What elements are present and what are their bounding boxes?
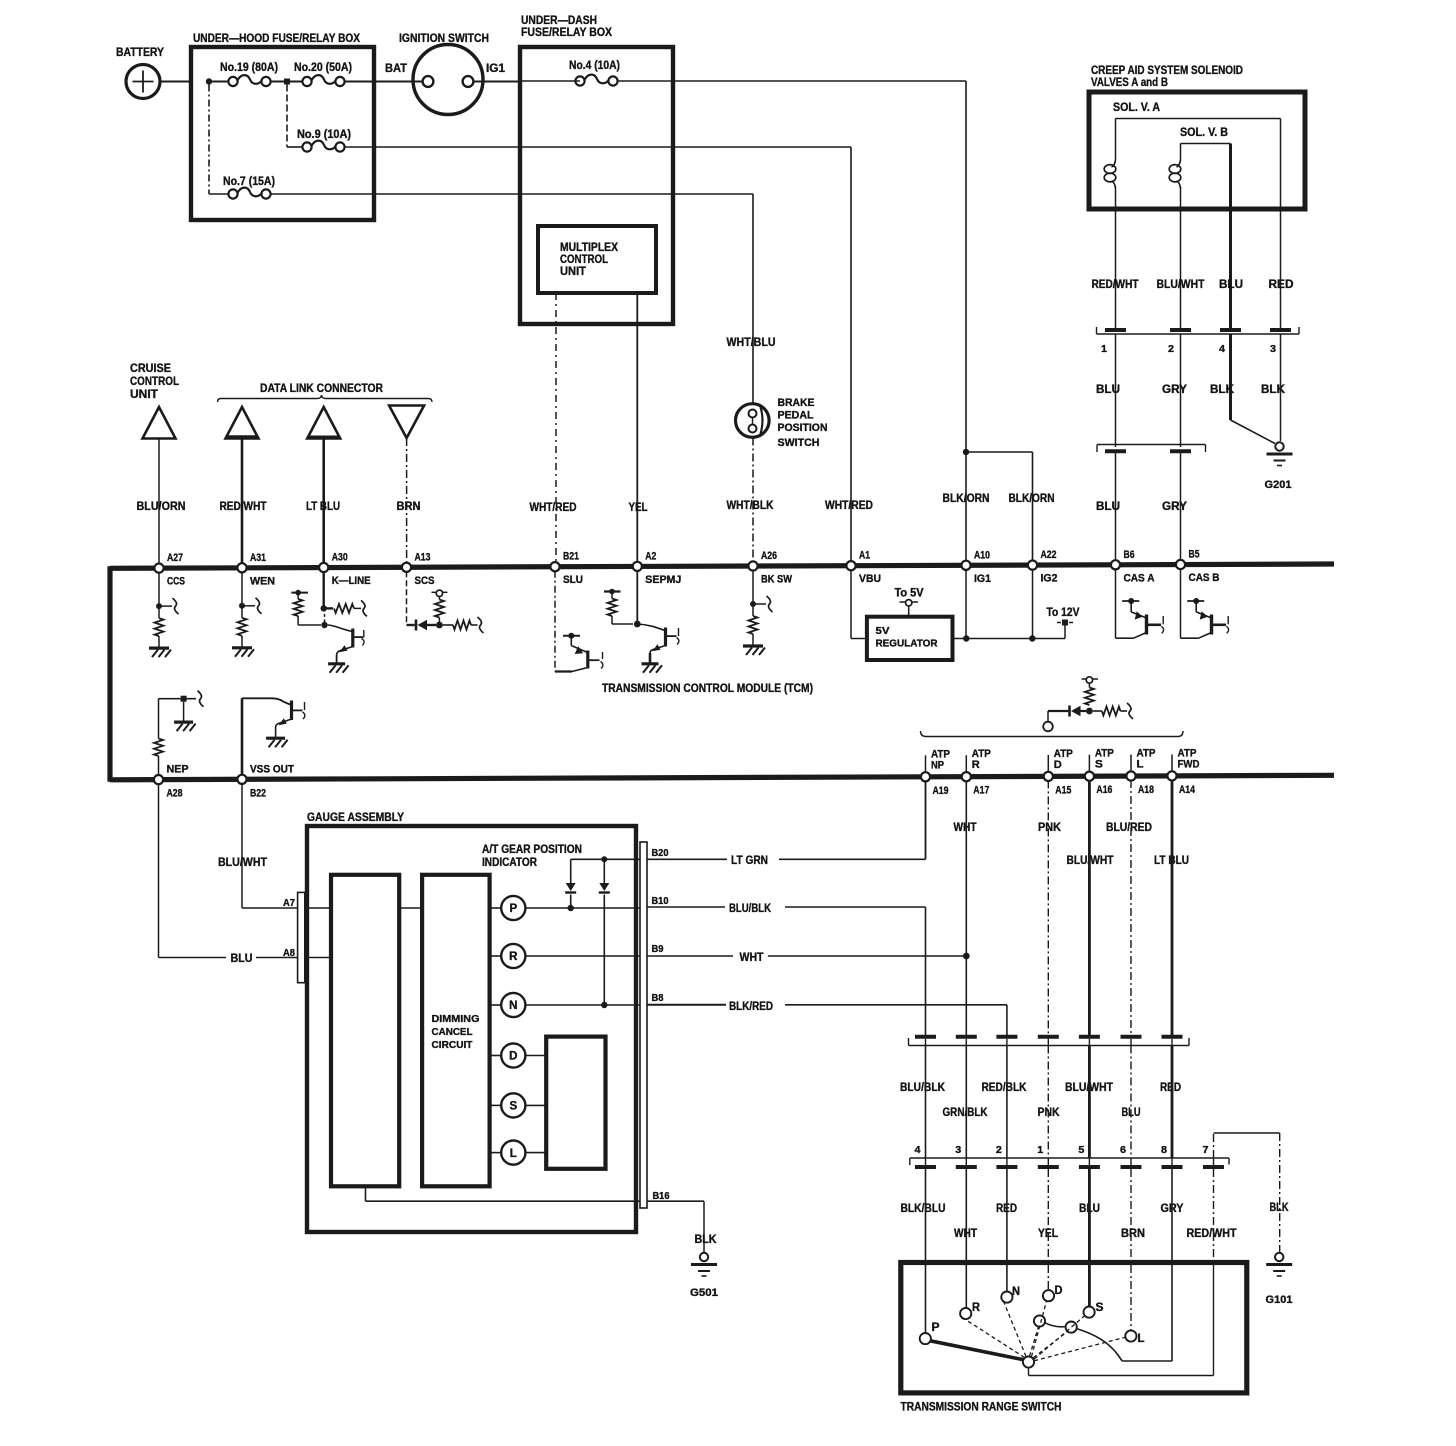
node B22 (VSS OUT) xyxy=(237,775,246,784)
TCM bottom bus xyxy=(110,775,1334,780)
fuse No.20 (50A) xyxy=(302,77,311,86)
node A26 (BK SW) xyxy=(748,561,757,570)
svg-text:No.20 (50A): No.20 (50A) xyxy=(294,62,352,74)
row2 pin 5 bar xyxy=(1079,1165,1100,1169)
svg-text:5V: 5V xyxy=(876,625,890,637)
svg-text:BLU: BLU xyxy=(1096,384,1120,396)
ignition switch BAT contact xyxy=(423,76,434,87)
node A22 (IG2) xyxy=(1028,561,1037,570)
svg-text:BK SW: BK SW xyxy=(761,574,793,586)
row1 pin bar 3 xyxy=(996,1035,1017,1039)
svg-text:BLK/ORN: BLK/ORN xyxy=(1009,493,1055,505)
junction N diode xyxy=(601,1002,607,1008)
wire RED/WHT from coil A xyxy=(1115,187,1117,330)
svg-text:UNIT: UNIT xyxy=(560,266,586,278)
wire stub A18 to connector brace xyxy=(1130,755,1132,773)
node A15 (ATP D) xyxy=(1044,772,1053,781)
svg-text:B6: B6 xyxy=(1124,549,1135,561)
svg-text:RED/BLK: RED/BLK xyxy=(982,1082,1028,1094)
node A17 (ATP R) xyxy=(962,772,971,781)
WEN pull-down circuit xyxy=(241,572,243,618)
svg-text:A8: A8 xyxy=(283,947,295,959)
svg-text:UNDER—HOOD FUSE/RELAY BOX: UNDER—HOOD FUSE/RELAY BOX xyxy=(193,31,360,45)
transmission range switch box xyxy=(901,1263,1247,1393)
To 12V terminal xyxy=(1064,623,1066,639)
svg-text:BLU: BLU xyxy=(231,953,253,965)
range switch contact R xyxy=(960,1308,971,1319)
wire col1 to D xyxy=(1047,1169,1049,1290)
gauge assembly box xyxy=(307,826,636,1232)
K-LINE junction 1 xyxy=(321,605,327,611)
wire stub A14 to connector brace xyxy=(1171,754,1173,772)
svg-text:CONTROL: CONTROL xyxy=(130,376,179,388)
svg-text:B16: B16 xyxy=(653,1191,670,1202)
wire block1 to block2 xyxy=(399,907,422,909)
wire resistor to 5V terminal xyxy=(1088,684,1090,688)
svg-text:S: S xyxy=(1096,1302,1104,1314)
wire stub A16 to connector brace xyxy=(1088,755,1090,773)
wire fuse No.4 output (IG1 feed) xyxy=(618,80,967,82)
svg-text:RED/WHT: RED/WHT xyxy=(1187,1228,1237,1240)
junction on BAT feed xyxy=(206,78,212,84)
junction IG1/IG2 feeds xyxy=(963,449,969,455)
DLC triangle 2 xyxy=(307,407,340,439)
range switch contact P xyxy=(920,1333,931,1344)
row2 pin 1 stub xyxy=(1047,1158,1049,1165)
wire A17 down xyxy=(965,781,967,1035)
wire R to B9 xyxy=(525,955,640,957)
wire pin8 col xyxy=(1171,1046,1174,1159)
svg-text:A13: A13 xyxy=(415,551,431,563)
range switch contact L xyxy=(1125,1330,1136,1341)
row1 pin stub 5 xyxy=(1088,1039,1090,1046)
svg-text:A17: A17 xyxy=(973,785,989,797)
svg-text:GRY: GRY xyxy=(1162,384,1187,396)
row1 pin stub 6 xyxy=(1130,1039,1132,1046)
ATP line hook xyxy=(1127,703,1133,719)
svg-text:PEDAL: PEDAL xyxy=(778,410,814,422)
wire cruise to A27 xyxy=(158,439,160,565)
svg-text:BLU/RED: BLU/RED xyxy=(1106,822,1152,834)
svg-text:UNIT: UNIT xyxy=(130,389,158,401)
junction ATP pullup xyxy=(1086,708,1093,715)
wire A18 down xyxy=(1130,780,1132,1035)
range switch mid contact 2 xyxy=(1066,1322,1077,1333)
dimming cancel circuit box xyxy=(422,875,490,1187)
indicator lamp S xyxy=(490,1104,502,1106)
row1 pin stub 4 xyxy=(1047,1039,1049,1046)
svg-text:B22: B22 xyxy=(250,787,266,799)
svg-text:PNK: PNK xyxy=(1038,822,1062,834)
svg-text:A18: A18 xyxy=(1138,784,1154,796)
wiper ghost to S xyxy=(1034,1316,1084,1359)
wire VBU feed down to A1 xyxy=(850,147,852,562)
wire BLK right to ground joint xyxy=(1280,334,1282,441)
svg-text:To 5V: To 5V xyxy=(895,588,924,600)
solenoid connector pin 3 bar xyxy=(1270,328,1291,332)
solenoid A top wire xyxy=(1115,119,1117,161)
svg-text:WHT/BLU: WHT/BLU xyxy=(727,337,776,349)
battery symbol xyxy=(126,65,160,99)
wire IG1 feed down to A10 xyxy=(965,81,967,561)
VSS OUT wire up xyxy=(241,698,244,775)
svg-text:WEN: WEN xyxy=(250,575,275,587)
K-LINE pull resistor xyxy=(297,593,299,599)
B connector strip xyxy=(640,842,647,1208)
svg-text:2: 2 xyxy=(996,1144,1002,1156)
wiper ghost to mid1 xyxy=(1030,1327,1039,1357)
K-LINE wire down xyxy=(323,572,325,609)
G201 ground symbol xyxy=(1275,442,1283,450)
diode to N line xyxy=(603,859,605,883)
svg-text:VSS OUT: VSS OUT xyxy=(250,763,294,775)
row1 pin bar 6 xyxy=(1121,1035,1142,1039)
wire into fuse No.7 xyxy=(209,193,229,195)
svg-text:A2: A2 xyxy=(645,550,656,562)
range switch mid contact 1 xyxy=(1034,1315,1045,1326)
wiper ghost to D xyxy=(1032,1301,1047,1356)
indicator lamp N xyxy=(490,1004,502,1006)
svg-text:L: L xyxy=(1138,1333,1145,1345)
svg-text:A16: A16 xyxy=(1096,784,1112,796)
node A2 (SEPMJ) xyxy=(633,562,642,571)
svg-text:G501: G501 xyxy=(690,1287,718,1299)
node A16 (ATP S) xyxy=(1085,772,1094,781)
wire B20 (LT GRN) xyxy=(647,858,727,860)
svg-text:L: L xyxy=(510,1148,517,1160)
wire into fuse No.9 xyxy=(287,146,303,148)
wire N to B8 xyxy=(525,1004,640,1006)
wire S to sub-box xyxy=(525,1104,546,1106)
SEPMJ pull resistor stub xyxy=(604,590,621,592)
row2 pin 7 stub xyxy=(1213,1158,1215,1165)
wire to hook xyxy=(1120,710,1127,712)
wire regulator output xyxy=(953,638,1066,640)
svg-text:SOL. V. B: SOL. V. B xyxy=(1180,127,1228,139)
row2 pin 4 bar xyxy=(915,1165,936,1169)
svg-text:D: D xyxy=(1054,759,1062,771)
svg-text:CRUISE: CRUISE xyxy=(130,363,171,375)
svg-text:VBU: VBU xyxy=(859,573,881,585)
wire B16 (BLK) to G501 xyxy=(647,1200,704,1202)
wire box edge to fuse No.4 xyxy=(520,80,580,82)
svg-text:B20: B20 xyxy=(652,848,669,859)
svg-text:TRANSMISSION RANGE SWITCH: TRANSMISSION RANGE SWITCH xyxy=(901,1400,1062,1414)
svg-text:A30: A30 xyxy=(332,552,348,564)
row2 pin 8 bar xyxy=(1162,1165,1183,1169)
DLC triangle 1 xyxy=(226,407,259,439)
wiper ghost to R xyxy=(962,1317,1025,1358)
wire DLC3 to A13 xyxy=(406,438,408,563)
svg-text:WHT/RED: WHT/RED xyxy=(530,502,577,514)
node A18 (ATP L) xyxy=(1126,771,1135,780)
wire col3 to R xyxy=(965,1169,967,1308)
wire fuse No.7 output (to brake switch) xyxy=(271,193,754,195)
wire A8 into gauge xyxy=(305,957,331,959)
wire pin1 col xyxy=(1047,1046,1049,1159)
svg-text:7: 7 xyxy=(1203,1144,1209,1156)
connector row2 bracket xyxy=(910,1157,1229,1159)
2nd connector GRY bar xyxy=(1170,449,1191,453)
svg-text:IG1: IG1 xyxy=(486,61,505,75)
node A19 (ATP NP) xyxy=(921,772,930,781)
svg-text:A27: A27 xyxy=(167,552,183,564)
row2 pin 1 bar xyxy=(1038,1165,1059,1169)
node A13 (SCS) xyxy=(402,563,411,572)
range switch wiper (P selected) xyxy=(930,1341,1023,1360)
wire battery to under-hood box xyxy=(160,81,191,83)
wire RED side of SOL.V.A xyxy=(1280,119,1282,330)
svg-text:BRN: BRN xyxy=(397,501,421,513)
wire pin2 col xyxy=(1006,1046,1008,1159)
ATP series resistor xyxy=(1093,710,1102,712)
fuse No.19 (80A) xyxy=(228,77,237,86)
solenoid connector pin 4 bar xyxy=(1220,328,1241,332)
row2 pin 2 bar xyxy=(996,1165,1017,1169)
BK SW pull-down circuit xyxy=(752,570,754,616)
wire branch down to fuse No.9 xyxy=(286,85,288,148)
svg-text:B8: B8 xyxy=(652,993,664,1004)
svg-text:CAS A: CAS A xyxy=(1124,572,1155,584)
wire B22 down (BLU/WHT) xyxy=(241,783,243,908)
svg-text:REGULATOR: REGULATOR xyxy=(876,638,938,650)
svg-text:S: S xyxy=(509,1101,517,1113)
row1 pin stub 1 xyxy=(925,1039,927,1046)
svg-text:GAUGE ASSEMBLY: GAUGE ASSEMBLY xyxy=(307,810,404,824)
SCS hook xyxy=(478,617,484,633)
svg-text:3: 3 xyxy=(955,1144,961,1156)
fuse No.9 (10A) xyxy=(302,142,311,151)
svg-text:B21: B21 xyxy=(563,551,579,563)
CAS A transistor Q xyxy=(1115,569,1117,638)
wire ATP pullup horizontal xyxy=(1048,710,1068,712)
multiplex control unit box xyxy=(538,226,656,293)
svg-text:IGNITION SWITCH: IGNITION SWITCH xyxy=(399,31,489,45)
svg-text:No.7 (15A): No.7 (15A) xyxy=(223,176,275,188)
wire pin5 col xyxy=(1088,1046,1091,1159)
K-LINE transistor Q xyxy=(328,625,353,632)
B16 internal wire xyxy=(365,1186,367,1201)
svg-text:FUSE/RELAY BOX: FUSE/RELAY BOX xyxy=(521,25,612,39)
row1 pin bar 2 xyxy=(956,1035,977,1039)
svg-text:A28: A28 xyxy=(167,788,183,800)
row1 pin bar 1 xyxy=(915,1035,936,1039)
diode to P line xyxy=(570,859,572,883)
svg-text:MULTIPLEX: MULTIPLEX xyxy=(560,242,618,254)
wire brake feed down to switch xyxy=(752,194,754,404)
svg-text:NP: NP xyxy=(931,759,944,771)
svg-text:N: N xyxy=(509,1000,517,1012)
node A1 (VBU) xyxy=(846,561,855,570)
svg-text:SEPMJ: SEPMJ xyxy=(645,574,681,586)
K-LINE wire to base junction xyxy=(324,608,326,625)
wire multiplex to A2 (SEPMJ) xyxy=(636,293,638,562)
SCS pull-up resistor xyxy=(435,600,444,618)
junction square to No.9 branch xyxy=(284,79,290,85)
NEP resistor chain xyxy=(158,756,160,776)
pivot to common xyxy=(1028,1368,1030,1376)
svg-text:BLU/BLK: BLU/BLK xyxy=(900,1082,946,1094)
SEPMJ ground xyxy=(642,662,659,665)
wire B8 (BLK/RED) xyxy=(647,1004,726,1006)
wiper ghost to L xyxy=(1034,1337,1125,1360)
wire col7 into box xyxy=(1213,1169,1215,1263)
wire A14 down xyxy=(1171,780,1174,1035)
svg-text:G201: G201 xyxy=(1265,479,1292,491)
wire GRY to B5 xyxy=(1180,453,1182,561)
wire BLK thick to ground joint xyxy=(1229,334,1232,420)
SCS wire down xyxy=(406,571,408,625)
svg-text:1: 1 xyxy=(1101,343,1107,355)
solenoid B top wire xyxy=(1180,144,1182,161)
svg-text:BATTERY: BATTERY xyxy=(116,45,164,59)
wire DLC2 to A30 xyxy=(322,439,325,564)
ignition switch IG1 contact xyxy=(463,76,474,87)
cruise control connector triangle xyxy=(143,407,176,439)
svg-text:WHT: WHT xyxy=(740,952,764,964)
TCM left edge xyxy=(107,566,112,782)
VSS OUT transistor Q xyxy=(242,698,290,704)
svg-text:BLK/RED: BLK/RED xyxy=(729,1001,773,1013)
solenoid 2nd connector bracket xyxy=(1097,444,1206,446)
svg-text:INDICATOR: INDICATOR xyxy=(482,857,538,869)
row1 pin bar 4 xyxy=(1038,1035,1059,1039)
wire pin7 to G101 xyxy=(1213,1133,1215,1158)
svg-text:RED/WHT: RED/WHT xyxy=(1092,279,1139,291)
NEP ground xyxy=(174,720,193,723)
ATP brace xyxy=(921,731,1184,737)
node B6 (CAS A) xyxy=(1111,560,1120,569)
svg-text:A22: A22 xyxy=(1041,549,1057,561)
svg-text:6: 6 xyxy=(1120,1144,1126,1156)
indicator lamp R xyxy=(490,955,502,957)
K-LINE junction 2 xyxy=(321,622,327,628)
svg-text:BAT: BAT xyxy=(385,61,408,75)
node A10 (IG1) xyxy=(961,561,970,570)
svg-text:BLK: BLK xyxy=(1270,1202,1290,1214)
svg-text:4: 4 xyxy=(1219,343,1225,355)
svg-text:S: S xyxy=(1095,759,1103,771)
row2 pin 3 bar xyxy=(956,1165,977,1169)
gauge sub-box xyxy=(546,1037,605,1169)
range switch arc xyxy=(1045,1323,1122,1361)
svg-text:CCS: CCS xyxy=(167,576,185,588)
wire A15 down xyxy=(1047,780,1049,1035)
svg-text:3: 3 xyxy=(1270,343,1276,355)
K-LINE series resistor xyxy=(324,607,333,609)
svg-text:N: N xyxy=(1012,1286,1020,1298)
2nd connector BLU bar xyxy=(1105,449,1126,453)
range switch contact S xyxy=(1084,1307,1095,1318)
VSS OUT ground xyxy=(266,737,285,740)
solenoid connector pin 2 bar xyxy=(1170,328,1191,332)
svg-text:5: 5 xyxy=(1078,1144,1084,1156)
wire BLU down to 2nd connector xyxy=(1115,334,1117,447)
svg-text:G101: G101 xyxy=(1266,1294,1293,1306)
junction WHT A17 xyxy=(963,953,970,960)
wire fuse20 to ignition BAT xyxy=(345,81,423,83)
creep aid solenoid box xyxy=(1089,92,1305,209)
wire stub A17 to connector brace xyxy=(965,755,967,773)
SEPMJ junction xyxy=(634,621,641,628)
range switch pivot contact xyxy=(1023,1356,1034,1367)
under-dash fuse/relay box xyxy=(520,47,673,324)
svg-text:No.19 (80A): No.19 (80A) xyxy=(220,62,278,74)
row2 pin 5 stub xyxy=(1088,1158,1090,1165)
wire col4 to P xyxy=(925,1169,927,1333)
fuse No.4 (10A) xyxy=(575,76,584,85)
K-LINE ground xyxy=(328,662,345,665)
svg-text:A19: A19 xyxy=(933,785,949,797)
svg-text:BLK/ORN: BLK/ORN xyxy=(943,493,990,505)
wire switch to A26 xyxy=(752,438,754,563)
row2 pin 8 stub xyxy=(1171,1158,1173,1165)
wire pin6 col xyxy=(1130,1046,1132,1159)
wire ATP sense up xyxy=(1047,711,1049,722)
wire A28 down (BLU) xyxy=(158,784,160,958)
SCS series resistor xyxy=(443,624,453,626)
svg-text:WHT/BLK: WHT/BLK xyxy=(727,500,775,512)
svg-text:FWD: FWD xyxy=(1178,758,1200,770)
node A14 (ATP FWD) xyxy=(1167,771,1176,780)
svg-text:IG1: IG1 xyxy=(974,573,991,585)
NEP top stub xyxy=(159,698,197,700)
range switch contact N xyxy=(1001,1292,1012,1303)
row1 pin bar 7 xyxy=(1162,1035,1183,1039)
wire stub A19 to connector brace xyxy=(925,755,927,773)
svg-text:D: D xyxy=(1055,1285,1063,1297)
NEP hook xyxy=(198,691,204,707)
wire B10 (BLU/BLK) xyxy=(647,906,725,908)
wire col2 to N xyxy=(1006,1169,1008,1292)
svg-text:A7: A7 xyxy=(283,897,295,909)
wire A10 down xyxy=(965,569,967,638)
svg-text:P: P xyxy=(509,903,517,915)
svg-text:R: R xyxy=(509,951,518,963)
svg-text:DIMMING: DIMMING xyxy=(432,1013,480,1025)
solenoid connector pin 1 bar xyxy=(1105,328,1126,332)
svg-text:B9: B9 xyxy=(652,944,664,955)
svg-text:BLU/BLK: BLU/BLK xyxy=(729,903,772,915)
ignition switch body xyxy=(413,45,483,115)
SCS wire diode to junction xyxy=(427,624,436,626)
ATP pullup resistor xyxy=(1085,688,1094,706)
indicator lamp D xyxy=(490,1055,502,1057)
node A28 (NEP) xyxy=(154,775,163,784)
row2 pin 4 stub xyxy=(925,1158,927,1165)
svg-text:A15: A15 xyxy=(1055,784,1071,796)
svg-text:A/T GEAR POSITION: A/T GEAR POSITION xyxy=(482,844,582,856)
svg-text:LT BLU: LT BLU xyxy=(306,501,340,513)
svg-text:RED/WHT: RED/WHT xyxy=(220,501,267,513)
fuse No.7 (15A) xyxy=(228,189,237,198)
wire pin4 col xyxy=(925,1046,927,1159)
svg-text:DATA LINK CONNECTOR: DATA LINK CONNECTOR xyxy=(260,381,383,395)
svg-text:RED: RED xyxy=(1160,1082,1181,1094)
row1 pin stub 3 xyxy=(1006,1039,1008,1046)
svg-text:NEP: NEP xyxy=(167,764,189,776)
wire A1 down to regulator xyxy=(850,570,852,639)
wire ignition IG1 to under-dash box xyxy=(474,81,521,83)
svg-text:A10: A10 xyxy=(974,549,990,561)
svg-text:IG2: IG2 xyxy=(1041,573,1058,585)
ATP sense circle xyxy=(1043,722,1053,732)
svg-text:CONTROL: CONTROL xyxy=(560,254,608,266)
node A27 (CCS) xyxy=(154,564,163,573)
row1 pin bar 5 xyxy=(1079,1035,1100,1039)
svg-text:BLU/WHT: BLU/WHT xyxy=(218,857,267,869)
svg-text:A14: A14 xyxy=(1179,784,1196,796)
